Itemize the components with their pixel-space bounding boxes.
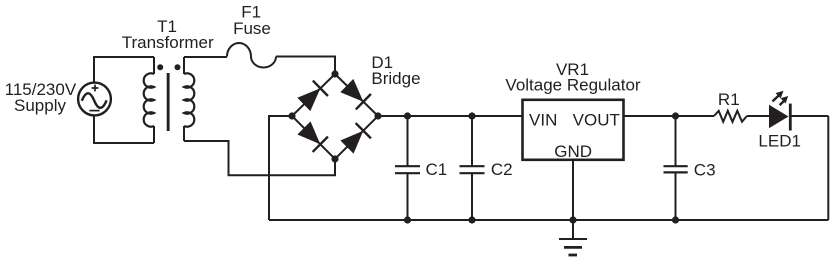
fuse F1 [227,43,276,67]
regulator GND pin wire [572,160,574,239]
bridge bottom node [331,155,338,162]
LED1 arrow 1 [773,91,784,102]
transformer T1 primary winding [144,73,154,126]
capacitor C1 plates [395,166,420,173]
label 115/230V Supply [5,80,77,115]
bridge D1 diamond wires [292,74,378,159]
node GND rail [569,216,576,223]
wire LED to right edge [790,115,828,117]
LED1 cathode bar [789,104,792,131]
svg-text:GND: GND [554,142,592,161]
wire source bottom to transformer primary [94,116,154,143]
wire secondary top to fuse [184,56,227,58]
svg-text:C1: C1 [426,160,448,179]
transformer T1 secondary phase dot [175,64,181,70]
capacitor C2 top wire [471,116,473,166]
capacitor C2 plates [460,166,485,173]
svg-text:C3: C3 [694,161,716,180]
right edge wire [827,116,829,220]
capacitor C3 plates [664,166,688,172]
wire secondary bottom to bridge bottom node [184,141,335,175]
voltage regulator VR1 box [523,100,624,160]
wire bridge left node to bottom rail [269,116,292,220]
wire source top to transformer primary [94,57,154,82]
label D1 Bridge [371,53,420,88]
transformer T1 primary phase dot [157,64,163,70]
top rail bridge to regulator [378,115,523,117]
svg-text:Voltage Regulator: Voltage Regulator [505,76,640,95]
svg-text:R1: R1 [718,90,740,109]
bridge right node [374,112,381,119]
ground symbol [559,238,587,240]
transformer T1 core [167,73,170,131]
LED1 triangle [769,105,789,128]
transformer T1 secondary winding [184,73,194,126]
bridge diode top-right [339,78,371,110]
resistor R1 [714,111,747,122]
capacitor C3 top wire [675,116,677,166]
node C1 bottom [404,216,411,223]
svg-text:Transformer: Transformer [122,33,214,52]
LED1 arrow 2 [780,96,789,105]
transformer T1 primary leg bottom [153,126,155,143]
capacitor C1 top wire [407,116,409,166]
transformer T1 secondary leg bottom [183,126,185,141]
bridge diode bottom-right [339,123,371,155]
svg-text:Supply: Supply [14,96,66,115]
AC source V1 circle [78,83,111,116]
label VR1 Voltage Regulator [505,60,640,95]
capacitor C2 bottom wire [471,174,473,221]
svg-text:Fuse: Fuse [233,19,271,38]
transformer T1 primary leg top [153,57,155,74]
capacitor C1 bottom wire [407,174,409,221]
wire R1 to LED [747,115,769,117]
node C1 top [404,112,411,119]
bridge top node [331,70,338,77]
bridge diode left-top [296,81,328,113]
AC source plus sign [92,85,99,92]
bridge diode left-bottom [296,120,328,152]
wire fuse to bridge top node [276,57,335,75]
transformer T1 secondary leg top [183,57,185,74]
svg-text:C2: C2 [491,160,513,179]
svg-text:Bridge: Bridge [371,69,420,88]
capacitor C3 bottom wire [675,173,677,220]
label F1 Fuse [233,2,271,38]
svg-text:LED1: LED1 [758,131,801,150]
bridge left node [288,112,295,119]
node C3 top [672,112,679,119]
node C2 bottom [468,216,475,223]
bottom rail 0V [269,219,828,221]
svg-text:VIN: VIN [529,110,557,129]
svg-text:VOUT: VOUT [573,110,620,129]
node C3 bottom [672,216,679,223]
AC source minus sign [89,110,99,112]
label T1 Transformer [122,17,214,52]
node C2 top [468,112,475,119]
wire VOUT to R1 [624,115,715,117]
AC source sine wave [82,93,107,108]
